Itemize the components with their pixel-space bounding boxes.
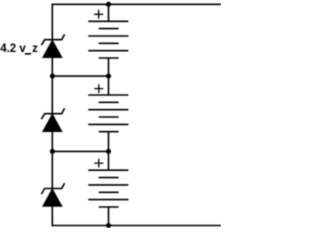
wire: bottom rail xyxy=(52,225,222,227)
plus polarity mark B3 xyxy=(94,159,103,168)
cathode zener bar D2 xyxy=(41,108,64,119)
B1 plate 6 (short -) xyxy=(99,57,119,59)
B2 plate 1 (long +) xyxy=(88,94,128,96)
B1 plate 5 (long +) xyxy=(88,50,128,52)
B1 plate 1 (long +) xyxy=(88,20,128,22)
plus polarity mark B2 xyxy=(94,84,103,93)
B1 plate 2 (short -) xyxy=(99,28,119,30)
B3 plate 5 (long +) xyxy=(88,199,128,201)
B3 plate 2 (short -) xyxy=(99,177,119,179)
svg-text:4.2 v_z: 4.2 v_z xyxy=(0,43,38,55)
wire: B3 negative stem xyxy=(108,207,110,226)
wire: B2 negative stem xyxy=(108,132,110,152)
anode triangle D1 xyxy=(43,40,63,58)
wire: B2 positive stem xyxy=(108,76,110,95)
plus polarity mark B1 xyxy=(94,10,103,19)
B2 plate 3 (long +) xyxy=(88,109,128,111)
zener diode D2 xyxy=(41,108,64,131)
B3 plate 6 (short -) xyxy=(99,206,119,208)
wire: top rail xyxy=(52,3,222,5)
battery B1 xyxy=(88,4,128,76)
wire: middle tie 2 (node between cell 2 and cell 3) xyxy=(52,150,108,152)
junction dot: tie 1 / left bus xyxy=(50,74,55,79)
B2 plate 6 (short -) xyxy=(99,131,119,133)
junction dot: bottom rail / battery column xyxy=(106,223,111,228)
B2 plate 5 (long +) xyxy=(88,123,128,125)
wire: B3 positive stem xyxy=(108,151,110,170)
wire: B1 positive stem xyxy=(108,4,110,21)
cathode zener bar D3 xyxy=(41,183,64,194)
junction dot: tie 1 / battery column xyxy=(106,74,111,79)
junction dot: top rail / battery column xyxy=(106,2,111,7)
B3 plate 3 (long +) xyxy=(88,184,128,186)
wire: B1 negative stem xyxy=(108,58,110,76)
wire: left vertical bus xyxy=(51,4,53,227)
battery B2 xyxy=(88,76,128,151)
anode triangle D3 xyxy=(43,189,63,207)
B3 plate 4 (short -) xyxy=(99,191,119,193)
B1 plate 3 (long +) xyxy=(88,35,128,37)
junction dot: tie 2 / battery column xyxy=(106,149,111,154)
wire: middle tie 1 (node between cell 1 and cell 2) xyxy=(52,75,108,77)
B1 plate 4 (short -) xyxy=(99,42,119,44)
anode triangle D2 xyxy=(43,114,63,132)
B3 plate 1 (long +) xyxy=(88,169,128,171)
junction dot: tie 2 / left bus xyxy=(50,149,55,154)
cathode zener bar D1 xyxy=(41,34,64,45)
zener diode D3 xyxy=(41,183,64,206)
battery B3 xyxy=(88,151,128,225)
B2 plate 4 (short -) xyxy=(99,116,119,118)
B2 plate 2 (short -) xyxy=(99,101,119,103)
zener diode D1 (4.2 V) xyxy=(41,34,64,57)
